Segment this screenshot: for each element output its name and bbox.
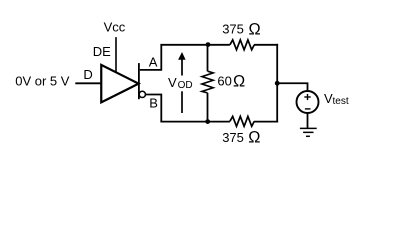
pin label DE	[93, 44, 111, 59]
wire bottom rail	[160, 121, 278, 123]
svg-text:375: 375	[222, 22, 244, 37]
plus sign	[304, 94, 310, 100]
minus sign	[305, 108, 311, 110]
resistor R1 375 ohm top	[230, 40, 254, 50]
svg-text:Ω: Ω	[248, 128, 260, 146]
svg-text:375: 375	[222, 130, 244, 145]
pin label D	[83, 67, 92, 82]
wire output B	[146, 95, 162, 122]
svg-text:test: test	[333, 96, 349, 107]
svg-text:B: B	[149, 95, 158, 110]
wire output A	[140, 45, 162, 70]
junction dot bottom 60 ohm tap	[205, 119, 210, 124]
power Vcc label	[104, 20, 126, 35]
label Vtest	[324, 91, 349, 107]
wire source to ground	[307, 114, 309, 129]
wire to Vtest source	[277, 83, 307, 91]
svg-text:V: V	[168, 75, 177, 90]
ground symbol	[300, 128, 317, 136]
annotation VOD measurement arrow	[178, 52, 186, 113]
wire right rail	[276, 44, 278, 123]
svg-text:0V or 5 V: 0V or 5 V	[15, 74, 70, 89]
source Vtest circle	[297, 91, 319, 113]
resistor R2 375 ohm bottom	[230, 116, 254, 126]
label VOD	[168, 75, 193, 91]
resistor R3 60 ohm with leads	[202, 45, 213, 122]
value label 375 ohm top	[222, 20, 260, 38]
inversion bubble on B output	[139, 91, 145, 97]
output bar of driver	[138, 63, 140, 99]
svg-text:OD: OD	[178, 80, 193, 91]
value label 375 ohm bottom	[222, 128, 260, 146]
svg-text:D: D	[83, 67, 92, 82]
wire Vcc lead to DE	[115, 37, 117, 73]
svg-text:A: A	[149, 55, 158, 70]
junction dot top 60 ohm tap	[206, 42, 211, 47]
svg-text:60: 60	[217, 74, 231, 89]
value label 60 ohm	[217, 73, 245, 91]
svg-text:Ω: Ω	[233, 73, 245, 91]
wire top rail	[160, 44, 278, 46]
junction dot Vtest tap	[275, 81, 280, 86]
driver U1 triangle	[101, 65, 138, 103]
pin label A	[149, 55, 158, 70]
pin label B	[149, 95, 158, 110]
svg-text:Vcc: Vcc	[104, 20, 126, 35]
wire D input	[75, 82, 101, 84]
node input label "0V or 5 V"	[15, 74, 70, 89]
svg-text:Ω: Ω	[249, 20, 261, 38]
svg-text:DE: DE	[93, 44, 111, 59]
